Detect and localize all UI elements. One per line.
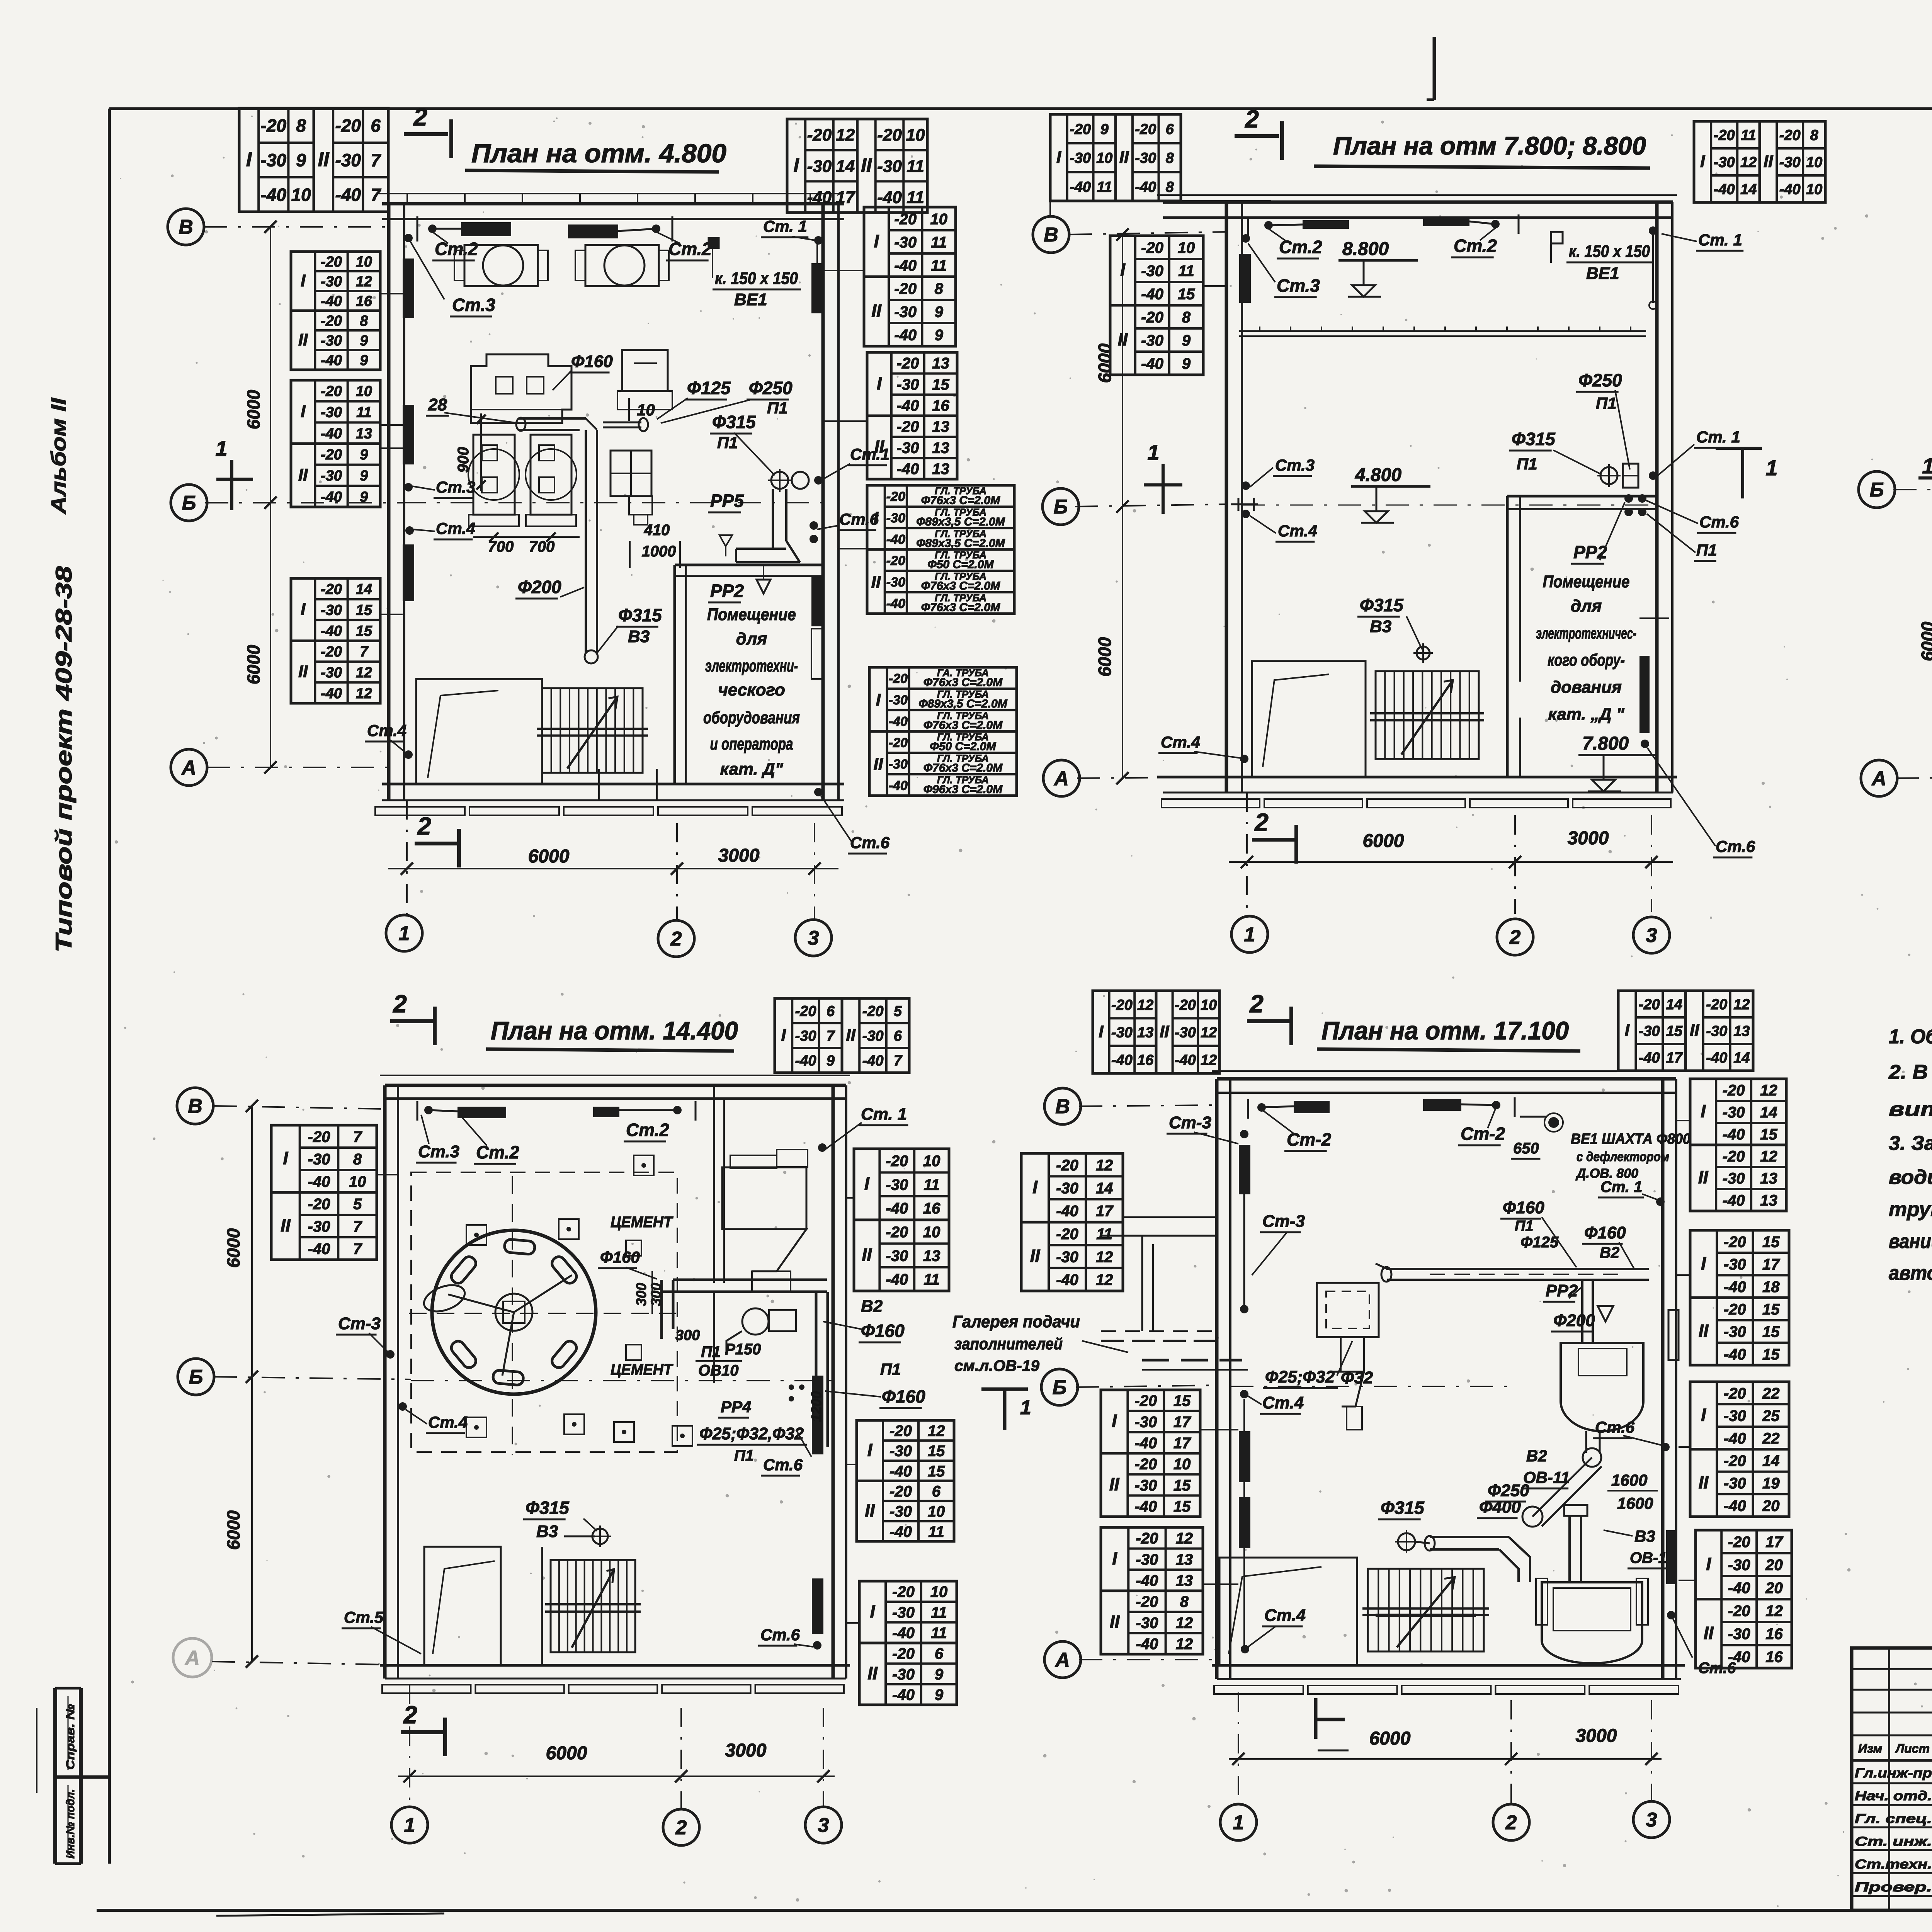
svg-text:вании, разработанных Минмон: вании, разработанных Минмонтажспецстроем… bbox=[1889, 1230, 1932, 1253]
svg-text:14: 14 bbox=[1096, 1180, 1113, 1197]
svg-text:14: 14 bbox=[1740, 182, 1757, 198]
plan1 left vertical dim line bbox=[270, 227, 271, 767]
plan5 table top-left bbox=[1093, 991, 1156, 1073]
svg-text:-30: -30 bbox=[1779, 155, 1801, 171]
svg-text:-20: -20 bbox=[1141, 239, 1163, 256]
svg-text:ческого: ческого bbox=[718, 680, 785, 699]
plan5 axis А bbox=[1044, 1641, 1081, 1678]
svg-text:Ф160: Ф160 bbox=[571, 352, 613, 371]
plan1 bottom-left room bbox=[416, 679, 542, 784]
plan2 axis circle 1 bbox=[1231, 916, 1268, 952]
svg-text:7: 7 bbox=[371, 185, 381, 205]
svg-text:Ф89х3,5 С=2.0М: Ф89х3,5 С=2.0М bbox=[916, 537, 1005, 549]
svg-text:13: 13 bbox=[932, 461, 949, 478]
svg-text:-40: -40 bbox=[321, 293, 342, 310]
svg-text:-40: -40 bbox=[1134, 1498, 1157, 1515]
svg-text:1: 1 bbox=[1765, 456, 1777, 480]
svg-text:1: 1 bbox=[1233, 1811, 1244, 1834]
svg-text:Ст-2: Ст-2 bbox=[1461, 1124, 1505, 1144]
svg-text:-20: -20 bbox=[1111, 997, 1133, 1013]
svg-text:-20: -20 bbox=[321, 383, 342, 400]
plan4 table right-3 bbox=[859, 1581, 957, 1705]
svg-text:12: 12 bbox=[1096, 1157, 1113, 1174]
svg-text:-30: -30 bbox=[1056, 1248, 1078, 1265]
svg-text:-30: -30 bbox=[889, 693, 908, 707]
svg-text:Б: Б bbox=[1053, 1376, 1067, 1399]
svg-text:ЦЕМЕНТ: ЦЕМЕНТ bbox=[611, 1361, 673, 1378]
svg-text:Ф125: Ф125 bbox=[1520, 1234, 1559, 1251]
svg-text:Нач. отд.: Нач. отд. bbox=[1855, 1789, 1932, 1803]
svg-text:9: 9 bbox=[1182, 355, 1191, 372]
svg-text:Ф315: Ф315 bbox=[1512, 429, 1556, 449]
svg-text:оборудования: оборудования bbox=[703, 708, 800, 727]
plan5 table right-1 bbox=[1690, 1079, 1786, 1211]
svg-text:Ф400: Ф400 bbox=[1479, 1498, 1521, 1517]
svg-text:I: I bbox=[1701, 1101, 1706, 1121]
svg-text:6000: 6000 bbox=[1095, 637, 1115, 677]
svg-text:II: II bbox=[1119, 148, 1129, 167]
plan4 mixer circle bbox=[432, 1230, 596, 1394]
svg-text:П1: П1 bbox=[717, 434, 738, 452]
plan5 axis circle 3 bbox=[1633, 1801, 1670, 1838]
svg-text:11: 11 bbox=[931, 257, 947, 274]
svg-text:-20: -20 bbox=[1724, 1385, 1746, 1402]
svg-text:15: 15 bbox=[1178, 286, 1195, 303]
plan1 machine 1 bbox=[473, 435, 515, 515]
svg-text:12: 12 bbox=[1201, 1025, 1217, 1041]
svg-text:Ст-3: Ст-3 bbox=[338, 1314, 381, 1333]
svg-text:электротехничес-: электротехничес- bbox=[1536, 624, 1636, 642]
svg-text:План на отм 7.800; 8.800: План на отм 7.800; 8.800 bbox=[1333, 131, 1646, 160]
svg-text:-40: -40 bbox=[1136, 1636, 1158, 1653]
svg-text:-30: -30 bbox=[261, 150, 287, 170]
plan4 bottom dimension line bbox=[398, 1776, 835, 1777]
svg-text:В2: В2 bbox=[1526, 1447, 1547, 1465]
svg-text:2. В системе отопления: 2. В системе отопления для выпуска возду… bbox=[1888, 1061, 1932, 1083]
svg-text:9: 9 bbox=[935, 1687, 944, 1704]
plan2 junction bbox=[1600, 467, 1617, 484]
svg-text:6000: 6000 bbox=[528, 846, 570, 867]
svg-text:-20: -20 bbox=[308, 1128, 330, 1145]
svg-text:Ф25;Ф32: Ф25;Ф32 bbox=[1265, 1367, 1335, 1386]
svg-text:Ст.4: Ст.4 bbox=[1278, 522, 1317, 540]
svg-text:-40: -40 bbox=[1135, 179, 1156, 195]
svg-text:А: А bbox=[181, 757, 196, 779]
svg-text:-30: -30 bbox=[889, 1443, 912, 1460]
plan5 axis В bbox=[1044, 1088, 1081, 1124]
svg-text:-40: -40 bbox=[308, 1240, 330, 1257]
svg-text:-40: -40 bbox=[894, 257, 917, 274]
svg-text:I: I bbox=[1112, 1411, 1117, 1431]
svg-text:П1: П1 bbox=[734, 1447, 754, 1464]
svg-text:12: 12 bbox=[1740, 155, 1757, 171]
plan5 left gallery bay bbox=[1101, 1235, 1217, 1237]
svg-text:Ф315: Ф315 bbox=[1381, 1498, 1425, 1518]
svg-text:Провер.: Провер. bbox=[1855, 1880, 1932, 1895]
svg-text:1: 1 bbox=[1922, 454, 1932, 478]
svg-text:-40: -40 bbox=[1070, 179, 1091, 195]
plan2 axis Б bbox=[1043, 488, 1079, 525]
svg-text:-20: -20 bbox=[1070, 121, 1091, 138]
svg-text:Ст.3: Ст.3 bbox=[1277, 276, 1320, 296]
svg-text:-20: -20 bbox=[1134, 1456, 1157, 1473]
svg-text:-20: -20 bbox=[862, 1003, 884, 1020]
plan4 left dim line bbox=[251, 1106, 253, 1662]
svg-text:Ф76х3 С=2.0М: Ф76х3 С=2.0М bbox=[923, 762, 1003, 774]
plan5 axis Б bbox=[1041, 1369, 1078, 1405]
svg-text:-40: -40 bbox=[261, 185, 287, 205]
svg-text:-30: -30 bbox=[1141, 262, 1163, 279]
svg-text:22: 22 bbox=[1762, 1385, 1780, 1402]
svg-text:-20: -20 bbox=[335, 116, 361, 136]
svg-text:Ст.3: Ст.3 bbox=[1275, 456, 1315, 474]
svg-text:1600: 1600 bbox=[1617, 1494, 1653, 1512]
svg-text:1: 1 bbox=[215, 436, 227, 461]
plan1 right wall radiator mid bbox=[811, 576, 823, 626]
svg-text:Ф50 С=2.0М: Ф50 С=2.0М bbox=[927, 558, 994, 571]
svg-text:II: II bbox=[1110, 1612, 1120, 1632]
svg-text:Р150: Р150 bbox=[725, 1341, 761, 1358]
svg-text:I: I bbox=[1120, 260, 1126, 280]
svg-text:I: I bbox=[1700, 152, 1705, 171]
plan2 top radiators bbox=[1303, 220, 1349, 229]
svg-text:10: 10 bbox=[1096, 150, 1112, 167]
svg-text:3. Закладные для приборов: 3. Закладные для приборов и средств авто… bbox=[1889, 1132, 1932, 1155]
plan4 room walls bbox=[380, 1075, 850, 1076]
svg-text:с дефлектором: с дефлектором bbox=[1577, 1150, 1669, 1164]
svg-text:10: 10 bbox=[1201, 997, 1217, 1013]
svg-text:-40: -40 bbox=[1134, 1435, 1157, 1452]
svg-text:9: 9 bbox=[360, 489, 368, 505]
svg-text:5: 5 bbox=[353, 1196, 362, 1213]
svg-text:кого обору-: кого обору- bbox=[1548, 651, 1625, 670]
svg-text:II: II bbox=[867, 1663, 878, 1683]
plan1 table right-3 pipes bbox=[867, 485, 1014, 614]
svg-text:Ст.4: Ст.4 bbox=[1262, 1393, 1304, 1412]
svg-text:-40: -40 bbox=[892, 1687, 915, 1704]
plan5 table top-right bbox=[1618, 991, 1686, 1071]
svg-text:П1: П1 bbox=[1596, 394, 1617, 412]
svg-text:-20: -20 bbox=[889, 736, 908, 750]
svg-text:17: 17 bbox=[1765, 1534, 1783, 1551]
svg-text:2: 2 bbox=[393, 990, 407, 1018]
svg-text:-40: -40 bbox=[1723, 1126, 1745, 1143]
svg-text:3000: 3000 bbox=[725, 1740, 767, 1761]
svg-text:II: II bbox=[1698, 1167, 1709, 1187]
svg-text:20: 20 bbox=[1765, 1580, 1783, 1597]
svg-text:-20: -20 bbox=[877, 126, 902, 145]
svg-text:Ф32: Ф32 bbox=[1341, 1368, 1373, 1387]
svg-text:ОВ10: ОВ10 bbox=[698, 1362, 739, 1379]
plan4 hopper pump bbox=[742, 1308, 769, 1335]
svg-text:Ф96х3 С=2.0М: Ф96х3 С=2.0М bbox=[923, 783, 1003, 796]
svg-text:14: 14 bbox=[1733, 1050, 1750, 1066]
svg-text:I: I bbox=[283, 1148, 288, 1168]
svg-text:9: 9 bbox=[296, 150, 306, 170]
plan2 dots П1 bbox=[1624, 494, 1633, 503]
svg-text:11: 11 bbox=[1178, 262, 1194, 279]
svg-text:16: 16 bbox=[932, 397, 949, 414]
plan5 central unit bbox=[1317, 1283, 1379, 1337]
svg-text:17: 17 bbox=[836, 188, 855, 207]
svg-text:7: 7 bbox=[353, 1240, 362, 1257]
plan1 section mark 1 left bbox=[216, 478, 253, 481]
plan2 table top-left bbox=[1050, 114, 1116, 201]
plan5 left column radiator bbox=[1239, 1145, 1250, 1194]
svg-text:13: 13 bbox=[1137, 1025, 1153, 1041]
svg-text:-20: -20 bbox=[1141, 309, 1163, 326]
svg-text:для: для bbox=[1571, 597, 1602, 616]
svg-text:Ст.2: Ст.2 bbox=[626, 1120, 669, 1140]
svg-text:I: I bbox=[1701, 1405, 1706, 1425]
plan1 center unit bbox=[622, 350, 668, 391]
svg-text:10: 10 bbox=[906, 126, 925, 145]
svg-text:II: II bbox=[318, 148, 330, 171]
svg-text:-30: -30 bbox=[897, 376, 919, 393]
svg-text:-20: -20 bbox=[1175, 997, 1196, 1013]
svg-text:-30: -30 bbox=[1141, 332, 1163, 349]
svg-text:11: 11 bbox=[923, 1176, 940, 1193]
svg-text:-30: -30 bbox=[335, 150, 361, 170]
svg-text:15: 15 bbox=[1762, 1323, 1780, 1340]
svg-text:10: 10 bbox=[349, 1173, 366, 1190]
plan4 table right-2 bbox=[857, 1420, 954, 1541]
svg-text:I: I bbox=[1706, 1554, 1711, 1574]
svg-text:6000: 6000 bbox=[243, 389, 264, 429]
svg-text:Ст.4: Ст.4 bbox=[428, 1413, 468, 1431]
plan4 axis Б bbox=[178, 1359, 214, 1395]
svg-text:-30: -30 bbox=[862, 1028, 884, 1044]
plan4 top radiators bbox=[457, 1107, 506, 1118]
plan2 stairs bbox=[1376, 671, 1479, 759]
svg-text:-40: -40 bbox=[1136, 1572, 1158, 1589]
svg-text:8: 8 bbox=[1182, 309, 1191, 326]
svg-text:12: 12 bbox=[1760, 1082, 1777, 1099]
svg-text:-30: -30 bbox=[892, 1666, 915, 1683]
svg-text:-20: -20 bbox=[807, 126, 832, 145]
svg-text:8: 8 bbox=[935, 280, 944, 297]
svg-text:-20: -20 bbox=[261, 116, 287, 136]
svg-text:12: 12 bbox=[356, 685, 372, 702]
plan5 table right-4 bbox=[1696, 1530, 1792, 1668]
svg-text:В: В bbox=[188, 1095, 202, 1117]
svg-text:8: 8 bbox=[1166, 150, 1174, 167]
svg-text:Помещение: Помещение bbox=[1543, 572, 1630, 591]
svg-text:-30: -30 bbox=[886, 1176, 908, 1193]
svg-text:3000: 3000 bbox=[1576, 1726, 1617, 1746]
svg-text:II: II bbox=[1690, 1021, 1699, 1040]
svg-text:-30: -30 bbox=[1175, 1025, 1196, 1041]
svg-text:6000: 6000 bbox=[223, 1510, 243, 1550]
svg-text:II: II bbox=[1704, 1623, 1714, 1643]
plan4 table top-right of title bbox=[775, 998, 842, 1073]
title block left table horizontals bbox=[1852, 1668, 1932, 1670]
svg-text:-30: -30 bbox=[1134, 1413, 1157, 1430]
svg-text:Ст. 1: Ст. 1 bbox=[861, 1105, 907, 1124]
plan1 table links bbox=[380, 293, 403, 294]
svg-text:II: II bbox=[1160, 1022, 1169, 1041]
svg-text:Б: Б bbox=[1054, 496, 1068, 518]
svg-text:I: I bbox=[877, 373, 882, 393]
svg-text:12: 12 bbox=[1760, 1148, 1777, 1165]
svg-text:-40: -40 bbox=[807, 188, 832, 207]
sheet frame top line bbox=[109, 107, 1932, 110]
plan5 axis circle 2 bbox=[1493, 1804, 1529, 1840]
plan1 duct elbow bottom-right bbox=[772, 489, 774, 549]
svg-text:14: 14 bbox=[836, 157, 855, 176]
svg-text:П1: П1 bbox=[1515, 1218, 1533, 1234]
plan1 fan unit 1 bbox=[464, 245, 538, 286]
svg-text:В: В bbox=[1044, 224, 1058, 246]
svg-text:-40: -40 bbox=[1141, 286, 1163, 303]
plan5 room walls bbox=[1212, 1070, 1681, 1072]
svg-text:10: 10 bbox=[356, 383, 372, 400]
svg-text:3: 3 bbox=[1646, 1809, 1657, 1831]
plan1 table left-1 bbox=[291, 252, 380, 370]
svg-text:Галерея подачи: Галерея подачи bbox=[952, 1312, 1080, 1331]
plan2 left dim line bbox=[1122, 235, 1123, 778]
svg-text:-30: -30 bbox=[1714, 155, 1735, 171]
svg-text:-20: -20 bbox=[1135, 121, 1156, 138]
svg-text:-30: -30 bbox=[321, 405, 342, 421]
svg-text:18: 18 bbox=[1762, 1279, 1780, 1296]
svg-text:-20: -20 bbox=[897, 418, 919, 435]
svg-text:Ст. 1: Ст. 1 bbox=[1696, 428, 1740, 446]
svg-text:16: 16 bbox=[356, 293, 372, 310]
plan1 table top-left bbox=[239, 108, 314, 212]
svg-text:6000: 6000 bbox=[1095, 343, 1115, 383]
plan5 vertical duct to bunker bbox=[1568, 1515, 1571, 1582]
svg-text:Ст.4: Ст.4 bbox=[1161, 733, 1200, 751]
svg-text:-30: -30 bbox=[1706, 1023, 1727, 1039]
plan4 mixer paddles bbox=[449, 1239, 579, 1385]
svg-text:11: 11 bbox=[1097, 179, 1112, 195]
svg-text:8: 8 bbox=[1180, 1594, 1189, 1611]
svg-text:Ф315: Ф315 bbox=[1360, 595, 1404, 615]
svg-text:-20: -20 bbox=[1723, 1148, 1745, 1165]
plan2 axis А bbox=[1043, 760, 1080, 796]
svg-text:-30: -30 bbox=[308, 1151, 330, 1168]
svg-text:3: 3 bbox=[808, 927, 819, 949]
plan5 bottom dimension line bbox=[1229, 1758, 1662, 1760]
svg-text:-30: -30 bbox=[889, 1503, 912, 1520]
svg-text:7: 7 bbox=[894, 1053, 903, 1069]
svg-text:700: 700 bbox=[529, 538, 555, 555]
svg-text:-30: -30 bbox=[1723, 1170, 1745, 1187]
svg-text:10: 10 bbox=[930, 1583, 948, 1600]
svg-text:4.800: 4.800 bbox=[1355, 465, 1401, 485]
plan5 gallery dashed line bbox=[1142, 1359, 1242, 1362]
svg-text:-20: -20 bbox=[1706, 997, 1727, 1013]
plan5 top radiators bbox=[1294, 1101, 1330, 1113]
svg-text:-20: -20 bbox=[1728, 1534, 1750, 1551]
svg-text:9: 9 bbox=[360, 468, 368, 484]
svg-text:П1: П1 bbox=[767, 399, 788, 417]
svg-text:-30: -30 bbox=[321, 468, 342, 484]
svg-text:-20: -20 bbox=[1639, 997, 1660, 1013]
plan4 section mark 1 below gallery bbox=[981, 1388, 1028, 1391]
plan4 inner wall right bay bbox=[713, 1085, 715, 1283]
svg-text:Ст.2: Ст.2 bbox=[476, 1142, 519, 1162]
svg-text:-20: -20 bbox=[886, 1153, 908, 1170]
svg-text:Ст.6: Ст.6 bbox=[850, 833, 890, 852]
svg-text:9: 9 bbox=[1182, 332, 1191, 349]
svg-text:9: 9 bbox=[827, 1053, 835, 1069]
plan1 left wall radiator top bbox=[403, 259, 414, 318]
svg-text:-40: -40 bbox=[1141, 355, 1163, 372]
svg-text:15: 15 bbox=[932, 376, 949, 393]
svg-text:9: 9 bbox=[1100, 121, 1109, 138]
svg-text:10: 10 bbox=[923, 1224, 940, 1241]
plan4 axis circle 3 bbox=[805, 1807, 842, 1843]
plan5 bottom section mark bbox=[1314, 1698, 1318, 1739]
svg-text:-20: -20 bbox=[889, 1483, 912, 1500]
svg-text:П1: П1 bbox=[1517, 455, 1537, 473]
plan5 diagonal duct В2 ОВ-11 bbox=[1532, 1458, 1602, 1526]
plan1 room partition electro bbox=[673, 565, 676, 784]
svg-text:300: 300 bbox=[633, 1283, 649, 1306]
plan5 bottom-left room bbox=[1219, 1558, 1357, 1665]
svg-text:заполнителей: заполнителей bbox=[954, 1335, 1063, 1353]
svg-text:Гл.инж-пр: Гл.инж-пр bbox=[1855, 1766, 1932, 1781]
plan1 axis circle 2 bbox=[658, 920, 694, 957]
svg-text:-30: -30 bbox=[892, 1604, 915, 1621]
svg-text:дования: дования bbox=[1551, 678, 1622, 697]
svg-text:7: 7 bbox=[353, 1218, 362, 1235]
svg-text:-20: -20 bbox=[889, 672, 908, 686]
svg-text:Ст.3: Ст.3 bbox=[418, 1142, 459, 1161]
svg-text:-40: -40 bbox=[308, 1173, 330, 1190]
svg-text:10: 10 bbox=[930, 211, 948, 228]
svg-text:-20: -20 bbox=[894, 280, 917, 297]
svg-text:3000: 3000 bbox=[718, 845, 760, 866]
plan2 axis B bbox=[1033, 216, 1069, 253]
svg-text:автоматика ".: автоматика ". bbox=[1889, 1262, 1932, 1284]
svg-text:22: 22 bbox=[1762, 1430, 1780, 1447]
svg-text:15: 15 bbox=[1666, 1023, 1683, 1039]
svg-text:-40: -40 bbox=[1728, 1580, 1750, 1597]
plan1 bottom breaks bbox=[598, 769, 600, 800]
svg-text:6000: 6000 bbox=[1363, 831, 1404, 851]
svg-text:электротехни-: электротехни- bbox=[705, 656, 798, 675]
plan5 mixer vessel bbox=[1561, 1343, 1643, 1431]
plan3 axis Б bbox=[1859, 471, 1895, 508]
svg-text:Ст.4: Ст.4 bbox=[367, 721, 406, 740]
svg-text:-40: -40 bbox=[1779, 182, 1801, 198]
svg-text:-40: -40 bbox=[889, 1523, 912, 1540]
svg-text:Ф50 С=2.0М: Ф50 С=2.0М bbox=[930, 740, 996, 753]
plan3 axis А bbox=[1861, 760, 1897, 796]
plan1 machine block A bbox=[471, 354, 571, 423]
plan1 funnel near РР2 bbox=[757, 580, 770, 594]
svg-text:-20: -20 bbox=[897, 355, 919, 372]
plan3 section mark 1 left bbox=[1918, 476, 1932, 480]
svg-text:Ф76х3 С=2.0М: Ф76х3 С=2.0М bbox=[921, 601, 1000, 614]
svg-text:-40: -40 bbox=[1639, 1050, 1660, 1066]
svg-text:II: II bbox=[865, 1500, 875, 1520]
svg-text:-30: -30 bbox=[308, 1218, 330, 1235]
svg-text:2: 2 bbox=[1249, 990, 1264, 1018]
svg-text:Ст.6: Ст.6 bbox=[1716, 837, 1755, 855]
svg-text:II: II bbox=[298, 465, 308, 484]
svg-text:I: I bbox=[1032, 1177, 1038, 1197]
svg-text:10: 10 bbox=[291, 185, 311, 205]
svg-text:Ст. 1: Ст. 1 bbox=[1600, 1179, 1642, 1196]
plan5 label Ст.6 bottom right bbox=[1673, 1619, 1692, 1658]
svg-text:вить краны „ Маевского": вить краны „ Маевского" bbox=[1889, 1098, 1932, 1121]
svg-text:-20: -20 bbox=[1724, 1452, 1746, 1469]
svg-text:17: 17 bbox=[1173, 1435, 1191, 1452]
